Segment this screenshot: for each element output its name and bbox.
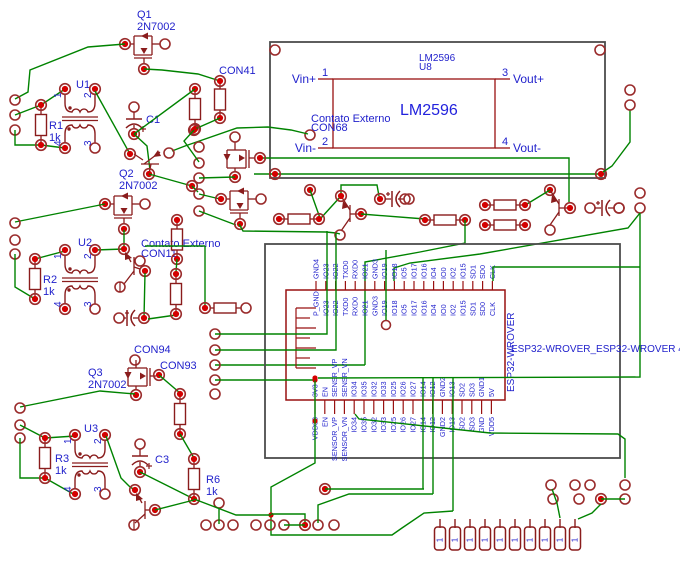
svg-text:1: 1 [466,537,475,542]
svg-text:IO15: IO15 [459,263,468,279]
svg-text:1: 1 [322,67,328,79]
svg-text:Q2: Q2 [119,168,134,180]
svg-text:IO23: IO23 [321,300,330,316]
svg-text:IO33: IO33 [379,381,388,397]
svg-text:Q3: Q3 [88,367,103,379]
svg-text:P_GND: P_GND [312,291,321,316]
svg-text:SD0: SD0 [478,265,487,279]
svg-text:2: 2 [322,136,328,148]
svg-text:4: 4 [53,301,64,307]
svg-text:IO4: IO4 [429,267,438,279]
svg-text:IO16: IO16 [419,263,428,279]
svg-text:R2: R2 [43,274,57,286]
svg-text:CON68: CON68 [311,122,348,134]
svg-text:IO34: IO34 [350,381,359,397]
svg-text:2: 2 [93,438,104,444]
svg-text:GND1: GND1 [477,377,486,397]
svg-text:4: 4 [502,136,508,148]
svg-text:1k: 1k [55,465,67,477]
svg-text:CLK: CLK [488,302,497,316]
svg-text:GND4: GND4 [312,259,321,279]
svg-text:GND2: GND2 [438,377,447,397]
svg-text:3: 3 [83,140,94,146]
svg-text:EN: EN [320,417,329,427]
svg-text:CON94: CON94 [134,344,171,356]
svg-text:IO5: IO5 [400,267,409,279]
svg-text:IO18: IO18 [390,300,399,316]
svg-text:U8: U8 [419,62,432,73]
svg-text:IO2: IO2 [449,267,458,279]
svg-text:IO13: IO13 [448,417,457,433]
svg-text:Q1: Q1 [137,9,152,21]
svg-text:1: 1 [556,537,565,542]
svg-text:IO16: IO16 [419,300,428,316]
svg-text:1: 1 [511,537,520,542]
svg-text:U1: U1 [76,79,90,91]
svg-text:IO26: IO26 [399,381,408,397]
svg-text:SD1: SD1 [468,302,477,316]
svg-text:IO21: IO21 [361,300,370,316]
svg-text:1: 1 [53,253,64,259]
svg-text:2: 2 [83,92,94,98]
svg-text:RXD0: RXD0 [351,297,360,316]
svg-text:IO32: IO32 [369,381,378,397]
svg-text:SENSOR_VN: SENSOR_VN [340,417,349,461]
svg-text:IO17: IO17 [410,300,419,316]
svg-text:1: 1 [63,438,74,444]
svg-text:1: 1 [481,537,490,542]
svg-text:IO32: IO32 [369,417,378,433]
svg-text:IO2: IO2 [449,304,458,316]
svg-text:GND3: GND3 [370,296,379,316]
svg-text:R3: R3 [55,453,69,465]
svg-text:IO0: IO0 [439,304,448,316]
svg-text:ESP32-WROVER_ESP32-WROVER 4: ESP32-WROVER_ESP32-WROVER 4 [511,344,680,355]
svg-text:U3: U3 [84,423,98,435]
svg-text:1: 1 [526,537,535,542]
svg-text:R6: R6 [206,474,220,486]
svg-text:Vin-: Vin- [295,141,316,155]
svg-text:2N7002: 2N7002 [137,21,176,33]
svg-text:2: 2 [83,253,94,259]
svg-text:R1: R1 [49,120,63,132]
svg-text:TXD0: TXD0 [341,261,350,279]
svg-text:IO33: IO33 [379,417,388,433]
svg-text:IO27: IO27 [409,381,418,397]
svg-text:1k: 1k [206,486,218,498]
svg-text:IO5: IO5 [400,304,409,316]
svg-text:GND3: GND3 [370,259,379,279]
svg-text:4: 4 [63,486,74,492]
svg-text:SD3: SD3 [467,383,476,397]
svg-text:IO26: IO26 [399,417,408,433]
svg-text:SENSOR_VP: SENSOR_VP [330,417,339,461]
svg-text:Vin+: Vin+ [292,72,316,86]
svg-text:IO34: IO34 [350,417,359,433]
svg-text:IO13: IO13 [448,381,457,397]
svg-text:IO0: IO0 [439,267,448,279]
svg-text:1: 1 [541,537,550,542]
svg-text:IO35: IO35 [360,381,369,397]
svg-text:GND: GND [477,417,486,433]
svg-text:1: 1 [571,537,580,542]
svg-text:C3: C3 [155,454,169,466]
svg-text:CON41: CON41 [219,65,256,77]
svg-text:3: 3 [93,486,104,492]
svg-text:SD2: SD2 [458,383,467,397]
svg-text:SD0: SD0 [478,302,487,316]
svg-text:IO19: IO19 [380,300,389,316]
svg-text:IO25: IO25 [389,381,398,397]
svg-text:1: 1 [451,537,460,542]
svg-text:2N7002: 2N7002 [119,180,158,192]
svg-text:IO21: IO21 [361,263,370,279]
svg-text:5V: 5V [487,388,496,397]
svg-text:LM2596: LM2596 [400,102,458,119]
svg-text:IO18: IO18 [390,263,399,279]
svg-text:TXD0: TXD0 [341,298,350,316]
svg-text:IO4: IO4 [429,304,438,316]
svg-text:2N7002: 2N7002 [88,379,127,391]
svg-text:1: 1 [436,537,445,542]
svg-text:1: 1 [496,537,505,542]
svg-text:SD2: SD2 [458,417,467,431]
svg-text:4: 4 [53,140,64,146]
svg-text:3: 3 [83,301,94,307]
svg-text:IO25: IO25 [389,417,398,433]
svg-text:Vout-: Vout- [513,141,541,155]
svg-text:Vout+: Vout+ [513,72,544,86]
svg-text:RXD0: RXD0 [351,260,360,279]
svg-text:EN: EN [320,387,329,397]
svg-text:1: 1 [53,92,64,98]
svg-text:ESP32-WROVER: ESP32-WROVER [506,313,517,392]
svg-text:IO19: IO19 [380,263,389,279]
svg-text:IO23: IO23 [321,263,330,279]
svg-text:3: 3 [502,67,508,79]
svg-text:SD3: SD3 [467,417,476,431]
svg-text:CON93: CON93 [160,360,197,372]
svg-text:IO17: IO17 [410,263,419,279]
svg-text:SD1: SD1 [468,265,477,279]
svg-text:IO15: IO15 [459,300,468,316]
svg-text:1k: 1k [43,286,55,298]
